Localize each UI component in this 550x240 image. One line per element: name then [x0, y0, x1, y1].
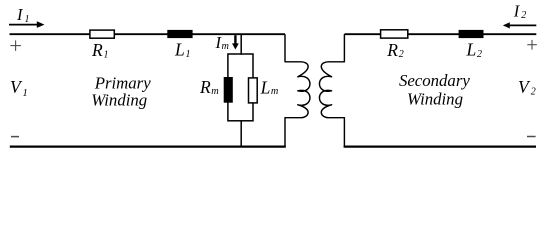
inductor Lm — [249, 78, 258, 103]
minus V1 — [11, 136, 19, 138]
minus V2 — [527, 136, 536, 138]
wire magnetizing stem bottom — [240, 121, 242, 147]
transformer primary winding coil — [285, 34, 310, 146]
wire primary top — [10, 33, 286, 35]
resistor R2 — [381, 30, 408, 38]
inductor L1 — [167, 30, 192, 38]
svg-text:Secondary: Secondary — [399, 71, 470, 90]
svg-text:Winding: Winding — [407, 89, 463, 108]
wire magnetizing stem top — [240, 34, 242, 55]
arrow I2 — [509, 24, 536, 26]
arrow I1 — [9, 24, 38, 26]
wire secondary bottom — [344, 146, 536, 148]
wire primary bottom — [10, 146, 286, 148]
transformer secondary winding coil — [319, 34, 344, 146]
resistor Rm — [224, 77, 233, 103]
plus V2 — [527, 44, 537, 46]
wire secondary top — [344, 33, 536, 35]
magnetizing branch box — [228, 54, 253, 121]
svg-text:Winding: Winding — [91, 91, 147, 110]
resistor R1 — [90, 30, 114, 38]
inductor L2 — [459, 30, 484, 38]
arrow Im — [234, 35, 236, 44]
plus V1 — [10, 45, 21, 47]
